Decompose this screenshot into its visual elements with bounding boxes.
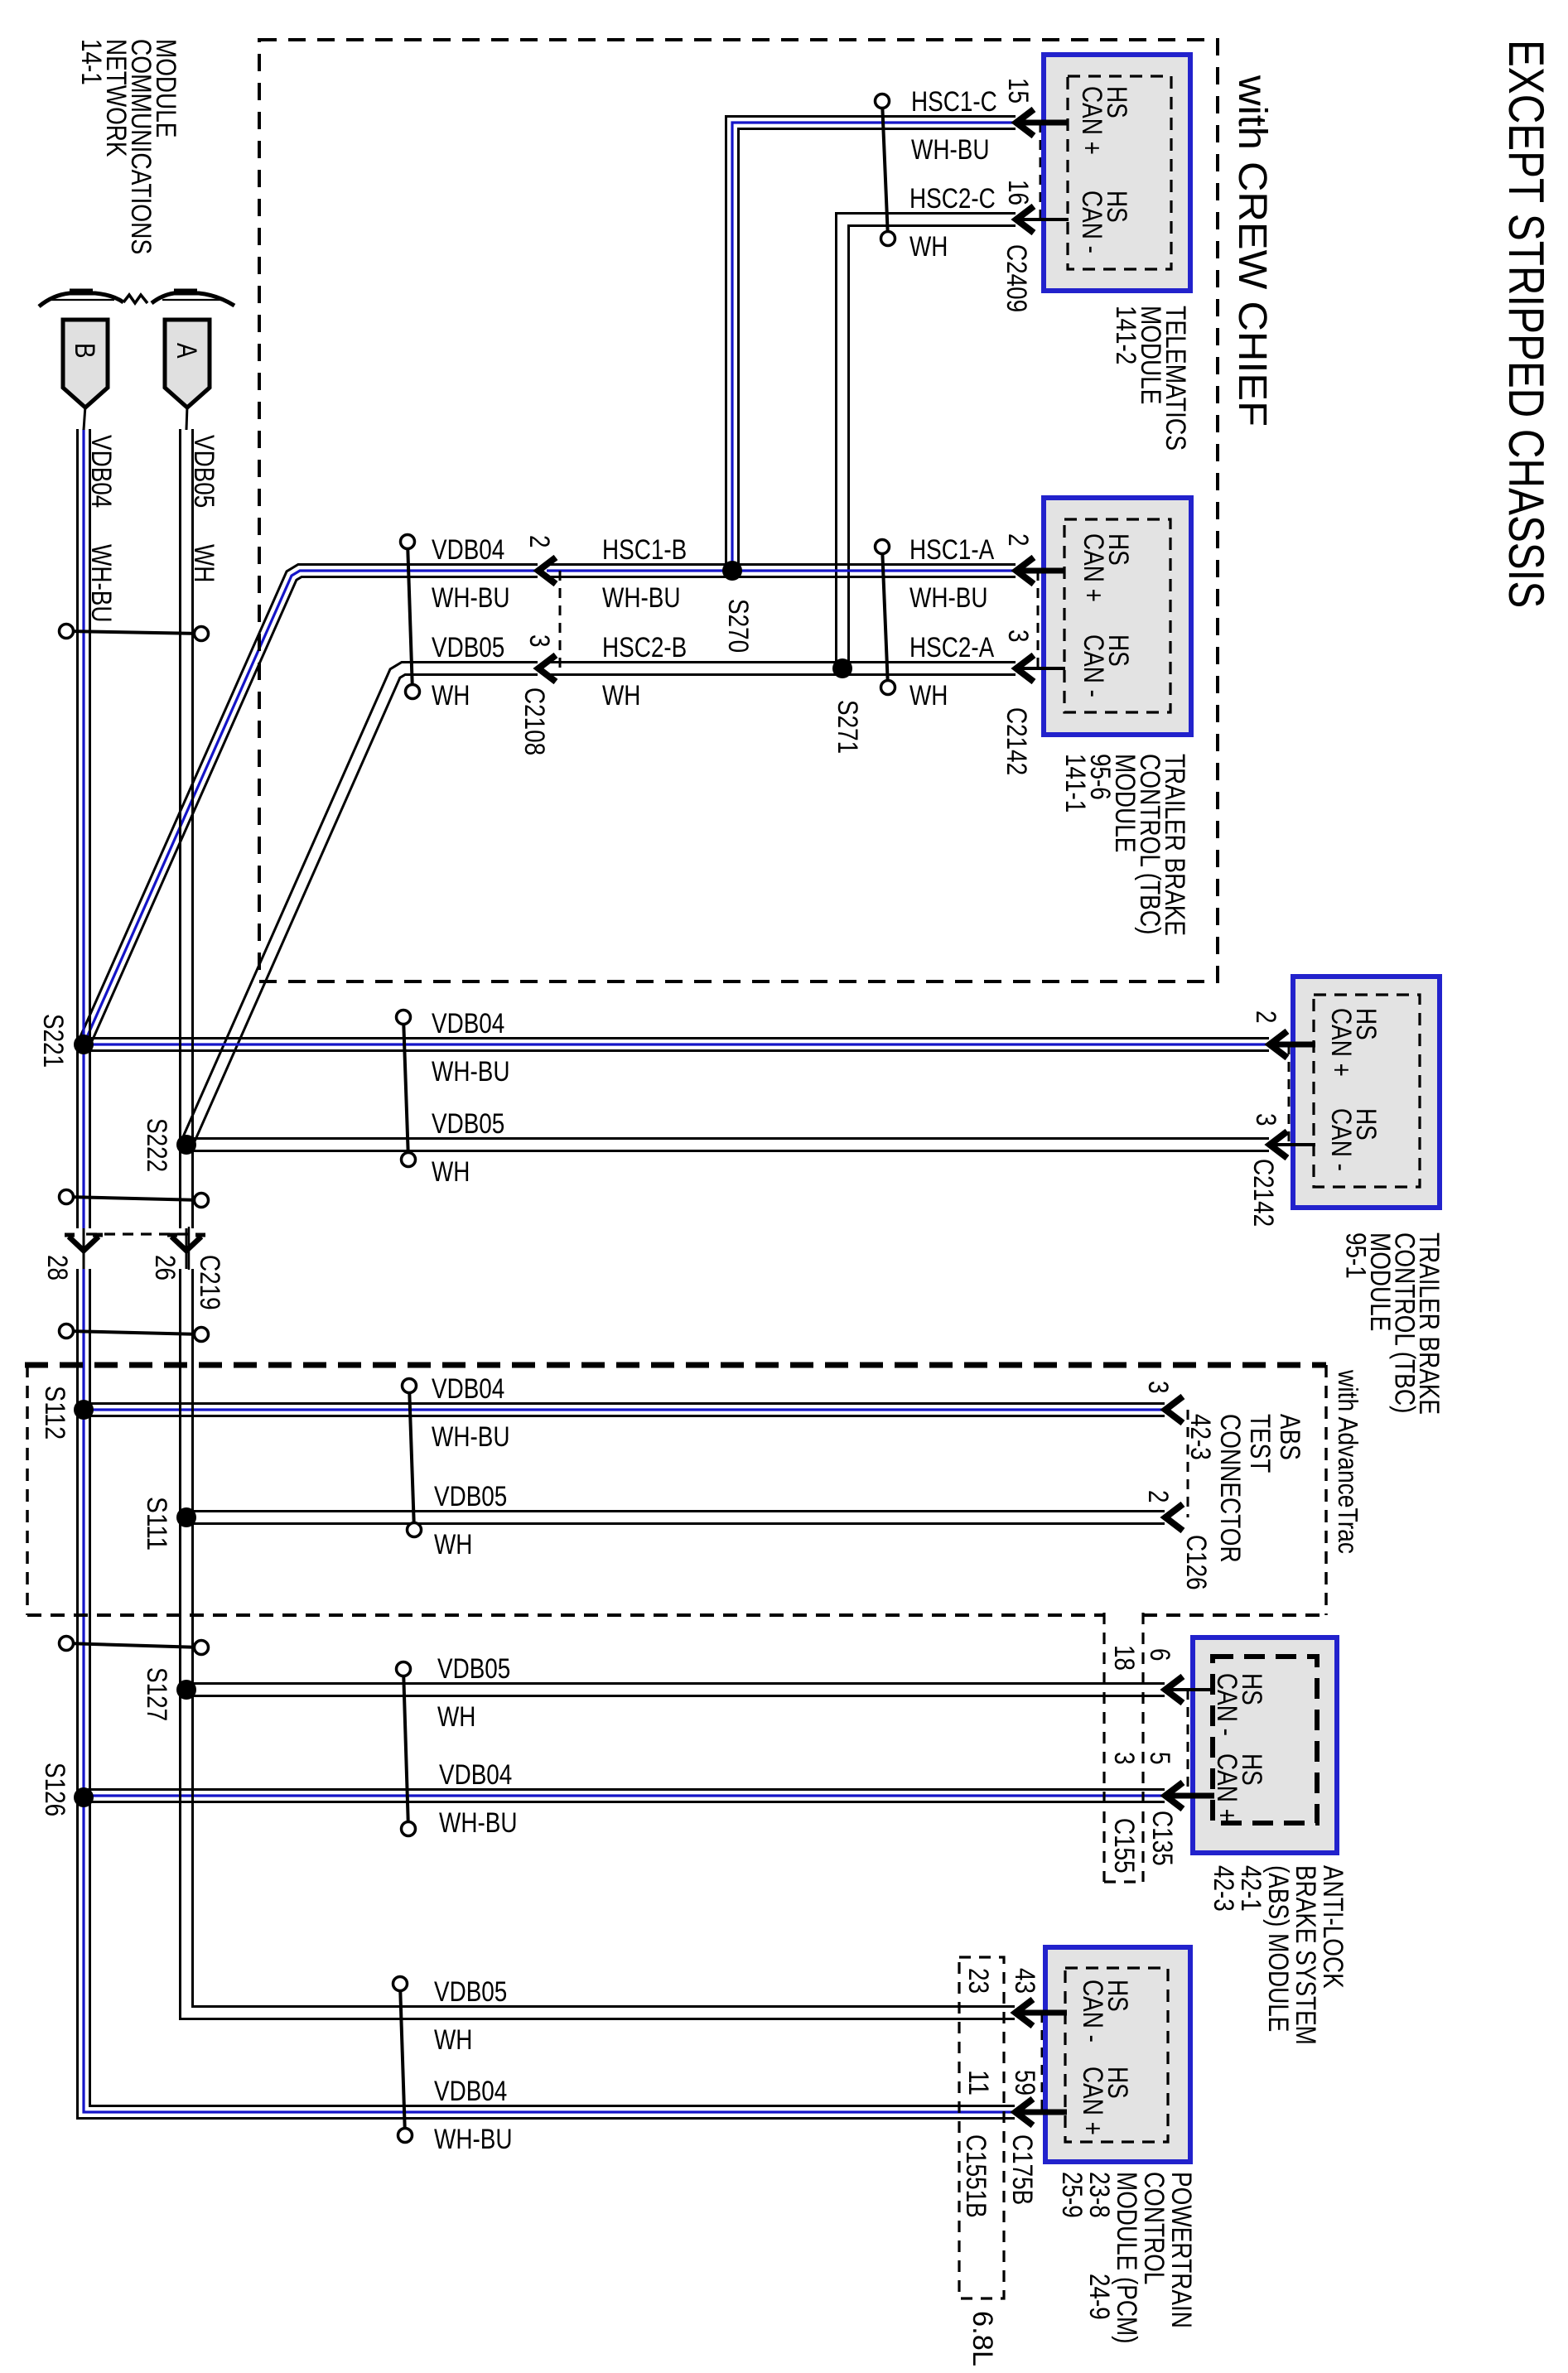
wire VDB05 WH from S222 to TBC 95-1 pin 3	[186, 1150, 1269, 1152]
svg-text:VDB05: VDB05	[432, 632, 504, 663]
pin 16 lead into TELEMATICS	[1016, 218, 1069, 221]
wire single through C219 on bus B	[83, 1228, 85, 1269]
pin 43 arrow at PCM	[1016, 1999, 1033, 2026]
dashed box with AdvanceTrac option - left edge	[26, 1365, 29, 1615]
svg-text:HSC2-B: HSC2-B	[602, 632, 687, 663]
connector B arrow box	[63, 320, 108, 408]
svg-text:WH-BU: WH-BU	[432, 1056, 510, 1088]
svg-text:WH-BU: WH-BU	[909, 582, 988, 614]
pin 2 arrow at TBC 95-1	[1270, 1031, 1287, 1058]
svg-text:ANTI-LOCKBRAKE SYSTEM(ABS) MOD: ANTI-LOCKBRAKE SYSTEM(ABS) MODULE42-142-…	[1208, 1865, 1348, 2045]
svg-text:WH: WH	[437, 1701, 475, 1733]
svg-text:24-9: 24-9	[1083, 2274, 1115, 2320]
wire stub from connector B tip	[84, 406, 85, 430]
pin 2 arrow at ABS test connector	[1165, 1504, 1183, 1531]
svg-text:WH: WH	[432, 1156, 470, 1188]
pin 15 arrow at TELEMATICS	[1016, 109, 1034, 136]
svg-text:59: 59	[1009, 2070, 1040, 2096]
connector C219 terminal on bus B	[69, 1237, 99, 1251]
wire stub from connector A tip	[186, 406, 187, 430]
connector C2108 bracket	[559, 571, 562, 668]
svg-text:2: 2	[1250, 1010, 1281, 1024]
twist mark on VDB05/VDB04 pair to PCM	[400, 1984, 405, 2135]
pin 3 arrow at TBC 141-1	[1016, 655, 1034, 682]
inline connector across buses near top	[66, 631, 201, 634]
pin 59 lead into PCM	[1015, 2110, 1067, 2115]
svg-text:HSC2-C: HSC2-C	[909, 183, 996, 215]
pin 3 arrow at ABS test connector	[1165, 1396, 1183, 1423]
connector C126 bracket	[1187, 1410, 1189, 1517]
svg-text:EXCEPT STRIPPED CHASSIS: EXCEPT STRIPPED CHASSIS	[1498, 40, 1554, 608]
splice S126	[74, 1787, 94, 1807]
svg-text:28: 28	[41, 1255, 73, 1281]
svg-text:11: 11	[963, 2070, 994, 2096]
svg-text:WH-BU: WH-BU	[911, 134, 990, 166]
twist mark on HSC1-B/HSC2-B pair	[882, 547, 888, 687]
module POWERTRAIN CONTROL MODULE (PCM) box	[1045, 1947, 1190, 2162]
dashed box with CREW CHIEF option	[259, 40, 1218, 982]
twist mark on VDB04/VDB05 pair left of C2108	[408, 542, 413, 692]
svg-text:POWERTRAINCONTROLMODULE (PCM)2: POWERTRAINCONTROLMODULE (PCM)23-825-9	[1056, 2172, 1197, 2344]
svg-text:with AdvanceTrac: with AdvanceTrac	[1333, 1369, 1363, 1554]
svg-text:VDB04: VDB04	[432, 534, 504, 566]
pin 15 lead into TELEMATICS	[1016, 120, 1069, 126]
svg-text:TELEMATICSMODULE141-2: TELEMATICSMODULE141-2	[1110, 306, 1191, 451]
svg-text:with CREW CHIEF: with CREW CHIEF	[1230, 75, 1274, 427]
connector C219 terminal on bus A	[171, 1237, 201, 1251]
connector C2142 bracket at TBC 141-1	[1037, 571, 1040, 668]
pin 5 arrow at ABS module	[1165, 1782, 1183, 1809]
svg-text:3: 3	[1002, 629, 1034, 643]
svg-text:WH: WH	[909, 231, 948, 263]
svg-text:S127: S127	[141, 1667, 172, 1721]
svg-text:WH-BU: WH-BU	[432, 1421, 510, 1453]
svg-text:6.8L: 6.8L	[967, 2311, 998, 2366]
module TRAILER BRAKE CONTROL (TBC) MODULE 95-1 box	[1293, 977, 1440, 1208]
splice S222	[176, 1135, 196, 1155]
svg-text:TRAILER BRAKECONTROL (TBC)MODU: TRAILER BRAKECONTROL (TBC)MODULE95-6141-…	[1059, 754, 1190, 936]
svg-text:VDB05: VDB05	[432, 1108, 504, 1140]
wire bus B VDB04 WH-BU lower segment to PCM pin 59	[78, 1269, 1016, 2119]
svg-text:18: 18	[1108, 1645, 1140, 1671]
connector C1551B dashed box	[959, 1957, 1004, 2298]
connector C135 bracket	[1187, 1690, 1189, 1796]
svg-text:C2142: C2142	[1247, 1159, 1279, 1227]
twist mark on HSC1-C/HSC2-C pair	[882, 101, 888, 239]
wire HSC2-B/HSC2-A WH from C2108 to TBC 141-1 pin 3	[547, 673, 1016, 676]
splice S271	[832, 658, 852, 678]
svg-text:3: 3	[1250, 1113, 1281, 1126]
svg-text:26: 26	[149, 1255, 181, 1281]
svg-text:C126: C126	[1180, 1535, 1212, 1590]
module TRAILER BRAKE CONTROL (TBC) MODULE 141-1 box	[1044, 498, 1191, 735]
svg-text:2: 2	[1142, 1490, 1174, 1503]
wire VDB04 WH-BU from S126 to ABS pin 5	[84, 1801, 1165, 1803]
wire HSC1-B/HSC1-A WH-BU from C2108 to TBC 141-1 pin 2	[547, 576, 1016, 578]
svg-text:WH: WH	[434, 2024, 472, 2056]
connector C2409 bracket	[1040, 123, 1042, 219]
svg-text:23: 23	[963, 1968, 994, 1994]
pin 3 lead into TBC 141-1	[1016, 667, 1065, 670]
svg-text:MODULECOMMUNICATIONSNETWORK14-: MODULECOMMUNICATIONSNETWORK14-1	[75, 39, 181, 254]
svg-text:WH-BU: WH-BU	[602, 582, 681, 614]
dashed box with AdvanceTrac option - right edge	[1324, 1365, 1328, 1615]
take-out brace over connector B	[39, 293, 123, 306]
svg-text:WH-BU: WH-BU	[432, 582, 510, 614]
connector C2142 bracket at TBC 95-1	[1288, 1044, 1291, 1145]
dashed box with AdvanceTrac option - top edge	[25, 1363, 1326, 1368]
pin 6 lead into ABS module	[1165, 1688, 1214, 1691]
svg-text:S112: S112	[39, 1386, 70, 1440]
svg-text:43: 43	[1009, 1968, 1040, 1994]
wire VDB04 WH-BU diagonal from S221 to upper corner	[89, 577, 538, 1048]
pin 16 arrow at TELEMATICS	[1016, 206, 1034, 233]
wire single through C219 on bus A	[186, 1228, 188, 1269]
svg-text:HSC1-A: HSC1-A	[909, 534, 994, 566]
svg-text:VDB04: VDB04	[85, 435, 117, 508]
svg-text:5: 5	[1144, 1752, 1175, 1765]
wire VDB04 WH-BU from S221 to TBC 95-1 pin 2	[84, 1049, 1269, 1052]
svg-text:C219: C219	[194, 1255, 225, 1310]
svg-text:VDB05: VDB05	[434, 1481, 507, 1512]
connector C175B bracket	[1041, 2013, 1044, 2112]
svg-text:C175B: C175B	[1006, 2134, 1038, 2205]
svg-text:HSC2-A: HSC2-A	[909, 632, 994, 663]
module ANTI-LOCK BRAKE SYSTEM (ABS) MODULE box	[1193, 1637, 1337, 1853]
svg-text:WH: WH	[432, 680, 470, 711]
pin 2 arrow at C2108	[538, 557, 556, 584]
wire VDB05 WH from S127 to ABS pin 6	[186, 1695, 1165, 1697]
pin 3 lead into TBC 95-1	[1269, 1143, 1315, 1146]
svg-text:VDB05: VDB05	[437, 1653, 510, 1685]
svg-text:WH: WH	[909, 680, 948, 711]
svg-text:VDB05: VDB05	[188, 435, 220, 508]
svg-text:C2142: C2142	[1001, 707, 1032, 775]
svg-text:15: 15	[1002, 78, 1034, 104]
svg-text:2: 2	[523, 535, 555, 548]
svg-text:C1551B: C1551B	[960, 2134, 991, 2218]
svg-text:S111: S111	[141, 1497, 172, 1551]
svg-text:HSC1-C: HSC1-C	[911, 86, 997, 118]
pin 2 lead into TBC 141-1	[1016, 568, 1065, 574]
dashed box with AdvanceTrac option - bottom edge	[27, 1613, 1104, 1617]
wire bus A VDB05 WH lower segment to PCM pin 43	[181, 1269, 1016, 2019]
splice S270	[722, 561, 742, 581]
svg-text:S221: S221	[37, 1014, 69, 1068]
svg-text:VDB04: VDB04	[434, 2076, 507, 2107]
svg-text:C2108: C2108	[519, 687, 550, 755]
module TELEMATICS MODULE box	[1044, 55, 1190, 291]
pin 59 arrow at PCM	[1016, 2099, 1033, 2125]
svg-text:WH-BU: WH-BU	[439, 1807, 518, 1839]
svg-text:WH: WH	[602, 680, 640, 711]
connector A arrow box	[165, 320, 210, 408]
pin 3 arrow at C2108	[538, 655, 556, 682]
wire VDB04 WH-BU from S112 to ABS test connector pin 3	[84, 1415, 1165, 1417]
svg-text:S126: S126	[39, 1763, 70, 1816]
svg-text:WH-BU: WH-BU	[434, 2124, 513, 2155]
pin 6 arrow at ABS module	[1165, 1676, 1183, 1703]
pin 2 arrow at TBC 141-1	[1016, 557, 1034, 584]
inline connector across buses below AdvanceTrac box	[66, 1643, 201, 1647]
svg-text:VDB04: VDB04	[432, 1008, 504, 1039]
svg-text:6: 6	[1144, 1648, 1175, 1662]
svg-text:3: 3	[523, 634, 555, 648]
wire bus A VDB05 WH upper segment	[179, 429, 181, 1228]
svg-text:2: 2	[1002, 533, 1034, 547]
pin 5 lead into ABS module	[1165, 1793, 1214, 1799]
wire HSC1-C WH-BU riser and run to TELEMATICS pin 15	[739, 129, 1016, 572]
inline connector across buses above C219	[66, 1197, 201, 1200]
svg-text:VDB05: VDB05	[434, 1976, 507, 2008]
wire bus B VDB04 WH-BU upper segment	[76, 429, 79, 1228]
wire VDB05 WH diagonal from S222 to upper corner	[192, 675, 538, 1148]
svg-text:HSC1-B: HSC1-B	[602, 534, 687, 566]
twist mark on VDB04/VDB05 pair to TBC 95-1	[403, 1017, 408, 1160]
svg-text:WH-BU: WH-BU	[85, 544, 117, 623]
pin 2 lead into TBC 95-1	[1269, 1042, 1315, 1048]
svg-text:B: B	[69, 343, 100, 359]
svg-text:S270: S270	[722, 599, 754, 653]
svg-text:16: 16	[1002, 180, 1034, 205]
brace joining mark	[123, 295, 147, 303]
svg-text:3: 3	[1108, 1752, 1140, 1765]
pin 3 arrow at TBC 95-1	[1270, 1131, 1287, 1158]
svg-text:C2409: C2409	[1001, 244, 1032, 312]
svg-text:WH: WH	[434, 1529, 472, 1560]
svg-text:VDB04: VDB04	[432, 1373, 504, 1405]
wire VDB05 WH from S111 to ABS test connector pin 2	[186, 1522, 1165, 1525]
svg-text:WH: WH	[188, 544, 220, 582]
take-out brace over connector A	[152, 293, 234, 306]
svg-text:A: A	[171, 343, 202, 359]
svg-text:S222: S222	[141, 1118, 172, 1172]
splice S127	[176, 1680, 196, 1700]
wire HSC2-C WH riser and run to TELEMATICS pin 16	[849, 226, 1016, 669]
splice S112	[74, 1400, 94, 1420]
svg-text:C155: C155	[1108, 1818, 1140, 1874]
connector C219 dashed bracket	[86, 1232, 189, 1235]
splice S221	[74, 1035, 94, 1054]
splice S111	[176, 1507, 196, 1527]
svg-text:C135: C135	[1146, 1811, 1178, 1866]
svg-text:3: 3	[1142, 1381, 1174, 1394]
svg-text:S271: S271	[832, 700, 863, 754]
svg-text:VDB04: VDB04	[439, 1759, 512, 1791]
twist mark on VDB05/VDB04 pair to ABS module	[403, 1669, 408, 1829]
pin 43 lead into PCM	[1015, 2010, 1067, 2016]
inline connector across buses below C219	[66, 1331, 201, 1334]
twist mark on VDB04/VDB05 pair to ABS test connector	[409, 1386, 414, 1530]
connector C155 dashed box	[1102, 1613, 1105, 1882]
